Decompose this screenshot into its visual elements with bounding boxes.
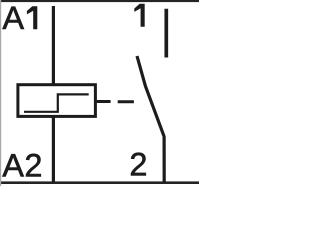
- wire stub from coil box: [97, 100, 111, 103]
- terminal label 2: [131, 153, 146, 176]
- wire terminal 1 (fixed contact): [164, 9, 168, 58]
- switch blade (contact): [137, 56, 164, 183]
- step symbol (bistable function): [24, 94, 89, 111]
- wire coil top (A1 to coil box): [52, 6, 55, 85]
- terminal label 1: [135, 4, 145, 27]
- terminal label A1: [2, 7, 37, 30]
- dashed mechanical link: [118, 100, 134, 103]
- wire coil bottom (coil box to A2): [52, 116, 55, 183]
- coil box (latching relay coil): [18, 85, 96, 117]
- terminal label A2: [2, 154, 40, 177]
